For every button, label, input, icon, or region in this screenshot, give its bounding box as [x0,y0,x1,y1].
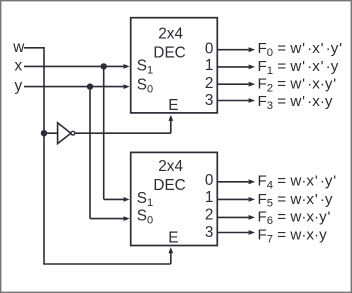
wire E1 riser [170,119,172,133]
wire w bottom horizontal [43,263,171,265]
svg-text:DEC: DEC [153,177,185,194]
wire x horizontal into U1 S1 [24,65,126,67]
svg-text:w: w [12,39,25,56]
svg-text:2: 2 [205,207,214,224]
arrowhead F2 [249,82,256,87]
inverter G1 bubble [71,131,75,135]
wire inverter input [44,132,58,134]
wire U2 output 3 [217,232,248,234]
wire inverter output [75,132,171,134]
svg-text:1: 1 [205,57,214,74]
svg-text:x: x [15,57,23,74]
arrowhead into U1 S1 [124,64,130,69]
wire U1 output 3 [217,100,248,102]
arrowhead F3 [249,98,256,103]
wire U2 output 2 [217,216,248,218]
arrowhead F1 [249,65,256,70]
wire y vertical drop [89,87,91,219]
wire x vertical drop [103,66,105,199]
svg-text:E: E [168,230,178,247]
junction dot on y line [87,83,93,89]
wire U1 output 1 [217,66,248,68]
arrowhead F7 [249,230,256,235]
arrowhead F4 [249,179,256,184]
decoder U2 box [131,152,218,245]
arrowhead F0 [249,47,256,52]
arrowhead into U2 S0 [124,216,130,221]
junction dot on w at inverter tap [41,130,47,136]
arrowhead into U2 E [168,247,173,253]
wire y horizontal into U2 S0 [90,218,126,220]
wire E2 riser [170,252,172,264]
svg-text:2x4: 2x4 [158,25,183,42]
svg-text:3: 3 [205,224,214,241]
wire U1 output 2 [217,83,248,85]
arrowhead into U1 E [168,115,173,121]
wire w top horizontal [24,47,44,49]
inverter G1 triangle [58,123,71,144]
wire U2 output 1 [217,198,248,200]
wire U2 output 0 [217,181,248,183]
svg-text:1: 1 [205,189,214,206]
svg-text:0: 0 [205,172,214,189]
arrowhead F6 [249,215,256,220]
decoder U1 box [131,18,218,113]
arrowhead F5 [249,197,256,202]
wire w vertical [43,47,45,264]
junction dot on x line [101,63,107,69]
svg-text:0: 0 [205,41,214,58]
svg-text:2: 2 [205,75,214,92]
svg-text:E: E [168,97,178,114]
arrowhead into U2 S1 [124,197,130,202]
svg-text:2x4: 2x4 [158,158,183,175]
arrowhead into U1 S0 [124,84,130,89]
wire U1 output 0 [217,49,248,51]
svg-text:DEC: DEC [153,44,185,61]
wire y horizontal into U1 S0 [24,86,126,88]
svg-text:3: 3 [205,92,214,109]
wire x horizontal into U2 S1 [104,198,126,200]
svg-text:y: y [15,78,23,95]
